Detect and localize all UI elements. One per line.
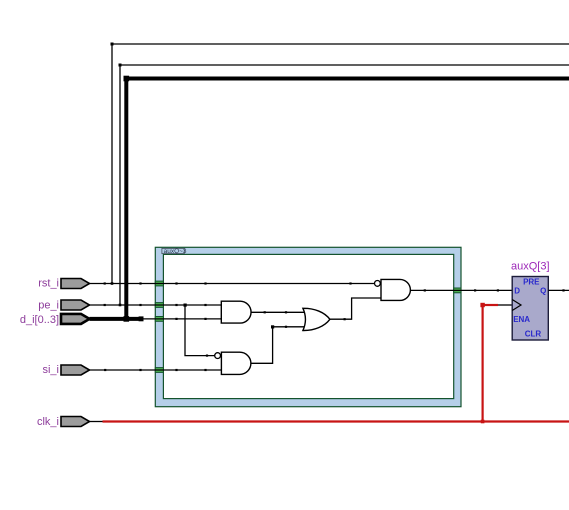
node junction pe branch xyxy=(184,304,187,307)
wire U3 output jog to U4 xyxy=(330,298,381,319)
node net1 corner xyxy=(111,43,114,46)
wire clk red horizontal xyxy=(103,420,569,422)
node junction net2/pe xyxy=(119,304,122,307)
wire d bus thick from port xyxy=(90,317,140,321)
svg-text:PRE: PRE xyxy=(523,277,540,286)
wire si_i to NAND xyxy=(90,369,222,371)
wire net1 vertical xyxy=(111,44,113,284)
wire clk red to flipflop xyxy=(483,304,498,306)
node bus junction xyxy=(124,316,130,322)
wire U1 output to OR xyxy=(251,311,305,313)
wire bus d vertical (thick) xyxy=(124,79,128,319)
svg-text:ENA: ENA xyxy=(513,315,530,324)
wire clk_i black stub xyxy=(90,421,103,423)
svg-text:D: D xyxy=(514,286,520,295)
node U2 jog corner xyxy=(271,325,274,328)
svg-text:auxQ[3]: auxQ[3] xyxy=(511,261,550,273)
inverter bubble U2 input xyxy=(215,353,221,359)
pin out on block right edge xyxy=(454,288,461,293)
node red tee xyxy=(481,420,485,424)
svg-text:clk_i: clk_i xyxy=(37,416,59,428)
wire clk red vertical xyxy=(482,305,484,422)
node bus tap xyxy=(139,316,144,321)
wire U4 output to flipflop D xyxy=(410,289,512,291)
port clk_i symbol xyxy=(61,417,90,427)
pin si on block left edge xyxy=(155,368,163,373)
svg-text:pe_i: pe_i xyxy=(38,300,59,312)
node net2 corner xyxy=(119,64,122,67)
port si_i symbol xyxy=(61,365,90,375)
port pe_i symbol xyxy=(61,300,90,310)
svg-text:CLR: CLR xyxy=(525,330,542,339)
wire pe_i to AND1 xyxy=(90,304,222,306)
or-gate U3 xyxy=(303,308,330,330)
pin pe on block left edge xyxy=(155,303,163,308)
svg-text:rst_i: rst_i xyxy=(38,278,59,290)
port d_i symbol (bus, thick) xyxy=(61,314,90,324)
module label auxQ~3 xyxy=(162,248,184,253)
wire clk black stub to flipflop xyxy=(498,304,512,306)
wire pe branch vertical to inverter bubble xyxy=(185,305,215,356)
wire U2 output jog to OR xyxy=(251,327,304,364)
wire net2 horizontal top xyxy=(120,64,569,66)
inverter bubble U4 input xyxy=(375,281,381,287)
node red corner xyxy=(480,303,484,307)
wire net2 vertical xyxy=(119,65,121,305)
wire rst_i to gate xyxy=(90,283,375,285)
svg-text:si_i: si_i xyxy=(42,364,59,376)
flipflop clock triangle xyxy=(512,300,521,311)
svg-text:d_i[0..3]: d_i[0..3] xyxy=(20,314,59,326)
and-gate U2 (inverted pe AND si) xyxy=(221,352,250,374)
node tick marks on wires xyxy=(104,282,565,371)
flipflop FDPE body xyxy=(512,277,548,341)
and-gate U4 (inverted rst AND ...) xyxy=(381,279,410,300)
port rst_i symbol xyxy=(61,279,90,289)
svg-text:Q: Q xyxy=(540,286,546,295)
pin rst on block left edge xyxy=(155,281,163,286)
node junction net1/rst xyxy=(111,282,114,285)
svg-text:auxQ~3: auxQ~3 xyxy=(164,248,187,255)
wire d tap thin to AND1 xyxy=(143,318,221,320)
module block auxQ~3 (outer blue band) xyxy=(155,247,461,406)
wire bus d horizontal top (thick) xyxy=(126,77,569,81)
wire Q output xyxy=(548,289,569,291)
pin d on block left edge xyxy=(155,317,163,322)
wire net1 horizontal top xyxy=(112,43,569,45)
node bus corner xyxy=(124,76,130,82)
and-gate U1 (pe AND d) xyxy=(221,301,251,323)
